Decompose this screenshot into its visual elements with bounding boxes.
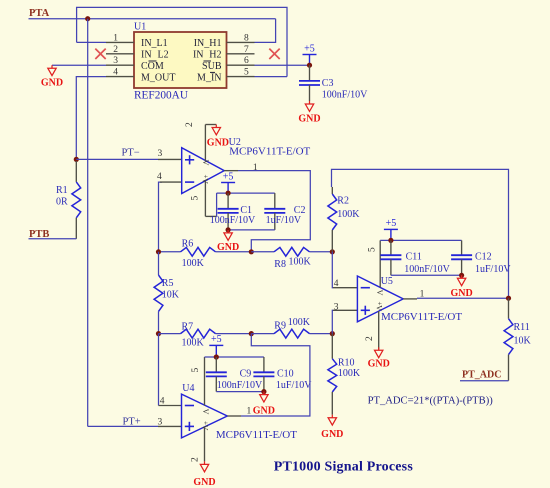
- wire PT- to U2 pin3: [76, 158, 158, 160]
- wire IN_L1 pin1: [77, 41, 106, 43]
- svg-text:PT+: PT+: [123, 416, 141, 427]
- svg-text:GND: GND: [368, 359, 390, 370]
- svg-text:REF200AU: REF200AU: [134, 90, 188, 102]
- svg-text:10K: 10K: [162, 290, 180, 301]
- U4 pin2 to ground: [204, 426, 206, 461]
- svg-text:+5: +5: [223, 171, 234, 182]
- svg-text:100nF/10V: 100nF/10V: [217, 380, 263, 391]
- svg-text:R2: R2: [337, 196, 349, 207]
- svg-text:GND: GND: [207, 137, 229, 148]
- wire C1 C2 bottom rail: [228, 229, 275, 231]
- svg-text:7: 7: [244, 45, 249, 55]
- resistor R7 100K: [181, 329, 216, 338]
- svg-text:+5: +5: [211, 334, 222, 345]
- junction R10 top: [330, 331, 335, 336]
- svg-text:M_OUT: M_OUT: [141, 72, 175, 83]
- svg-text:100K: 100K: [182, 337, 205, 348]
- wire U5 pin3 to R10 junction: [331, 310, 334, 333]
- wire PTA horizontal: [29, 18, 276, 20]
- resistor R8 100K: [251, 251, 274, 253]
- svg-text:8: 8: [244, 33, 249, 43]
- svg-text:PT−: PT−: [122, 148, 140, 159]
- svg-text:100K: 100K: [288, 317, 311, 328]
- svg-text:100K: 100K: [338, 368, 361, 379]
- junction U2 feedback: [249, 249, 254, 254]
- svg-text:100nF/10V: 100nF/10V: [322, 90, 368, 101]
- capacitor C1 100nF/10V: [227, 193, 229, 209]
- svg-text:3: 3: [158, 149, 163, 159]
- svg-text:U5: U5: [381, 276, 393, 287]
- wire U4 output feedback loop: [241, 334, 310, 416]
- svg-text:MCP6V11T-E/OT: MCP6V11T-E/OT: [381, 311, 462, 323]
- svg-text:4: 4: [113, 68, 118, 78]
- resistor R10 100K: [331, 334, 333, 359]
- power +5 at U2: [227, 183, 229, 194]
- svg-text:1: 1: [247, 407, 252, 417]
- wire R5 junction to U4 pin4: [158, 334, 160, 406]
- U4 pin3 stub: [158, 425, 182, 427]
- svg-text:R7: R7: [182, 322, 194, 333]
- svg-text:PT_ADC=21*((PTA)-(PTB)): PT_ADC=21*((PTA)-(PTB)): [368, 396, 494, 407]
- wire bottom middle rail left: [159, 333, 181, 335]
- U2 pin4 stub: [160, 181, 182, 183]
- svg-text:SUB: SUB: [202, 61, 222, 72]
- svg-text:1: 1: [113, 33, 118, 43]
- svg-text:3: 3: [158, 418, 163, 428]
- svg-text:5: 5: [244, 68, 249, 78]
- svg-text:PT1000 Signal Process: PT1000 Signal Process: [274, 460, 414, 475]
- wire C9 C10 bottom rail: [216, 391, 264, 393]
- no-connect X pin 7: [269, 49, 279, 59]
- junction PTA: [85, 16, 90, 21]
- wire U5 output: [417, 297, 509, 299]
- junction U4 feedback: [249, 331, 254, 336]
- junction +5 C1: [226, 191, 231, 196]
- U4 output pin1: [227, 415, 241, 417]
- svg-text:PT_ADC: PT_ADC: [462, 370, 501, 381]
- svg-text:100K: 100K: [289, 256, 312, 267]
- U5 pin5 to +5 rail: [379, 240, 381, 287]
- wire C11 C12 bottom rail: [391, 274, 462, 276]
- U2 pin3 stub: [158, 158, 182, 160]
- junction C3 node: [307, 63, 312, 68]
- wire pin8 to PTA rail: [255, 19, 276, 43]
- svg-text:100K: 100K: [337, 209, 360, 220]
- svg-text:IN_L1: IN_L1: [141, 38, 168, 49]
- U5 pin3 stub: [333, 309, 357, 311]
- capacitor C3: [309, 65, 311, 81]
- svg-text:2: 2: [113, 45, 118, 55]
- junction R2 bottom: [330, 249, 335, 254]
- wire M_OUT pin4 down to PT- node: [76, 77, 106, 160]
- junction R11 top: [506, 296, 511, 301]
- U2 pin5 to +5 rail: [204, 181, 206, 217]
- capacitor C10 1uF/10V: [263, 357, 265, 372]
- svg-text:100nF/10V: 100nF/10V: [404, 264, 450, 275]
- svg-text:R1: R1: [56, 185, 68, 196]
- svg-text:3: 3: [113, 56, 118, 66]
- svg-text:C11: C11: [406, 252, 422, 263]
- svg-text:5: 5: [191, 368, 201, 373]
- svg-text:1uF/10V: 1uF/10V: [475, 264, 511, 275]
- svg-text:3: 3: [334, 302, 339, 312]
- wire C1 C2 top rail: [217, 192, 275, 194]
- svg-text:5: 5: [191, 196, 201, 201]
- svg-text:1uF/10V: 1uF/10V: [276, 380, 312, 391]
- wire top middle rail left: [159, 251, 181, 253]
- svg-text:L2: L2: [158, 50, 169, 61]
- wire top loop M_IN to IN_L1: [77, 7, 287, 76]
- svg-text:H2: H2: [209, 50, 221, 61]
- svg-text:IN: IN: [193, 50, 204, 61]
- junction +5 C9: [214, 354, 219, 359]
- op-amp U4: [182, 394, 228, 438]
- svg-text:V: V: [201, 409, 210, 415]
- U1 left pin stubs 1-4: [106, 41, 134, 43]
- svg-text:IN_H1: IN_H1: [194, 38, 222, 49]
- U4 pin5 to +5 rail: [204, 357, 206, 406]
- svg-text:GND: GND: [193, 477, 215, 488]
- svg-text:GND: GND: [41, 78, 63, 89]
- junction +5 C11: [388, 238, 393, 243]
- svg-text:2: 2: [185, 122, 195, 127]
- wire PT_ADC: [460, 380, 509, 382]
- capacitor C12 1uF/10V: [461, 240, 463, 255]
- op-amp U5: [357, 276, 403, 322]
- resistor R6 100K: [181, 247, 216, 256]
- wire PT+ to U4 pin3: [88, 425, 158, 427]
- U4 pin4 stub: [159, 405, 182, 407]
- svg-text:IN: IN: [141, 50, 152, 61]
- svg-text:1uF/10V: 1uF/10V: [266, 215, 302, 226]
- ground below R10: [331, 415, 333, 418]
- wire U1 pin6 to C3 node: [255, 64, 310, 66]
- svg-text:C10: C10: [277, 369, 294, 380]
- svg-text:PTA: PTA: [29, 8, 50, 19]
- svg-text:GND: GND: [298, 114, 320, 125]
- wire R2 junction to U5 pin4: [331, 252, 334, 288]
- svg-text:+5: +5: [386, 218, 397, 229]
- svg-text:MCP6V11T-E/OT: MCP6V11T-E/OT: [229, 146, 310, 158]
- svg-text:5: 5: [367, 247, 377, 252]
- svg-text:+5: +5: [304, 43, 315, 54]
- svg-text:GND: GND: [450, 288, 472, 299]
- junction rail R5 bottom: [156, 331, 161, 336]
- ground below C3: [309, 101, 311, 104]
- svg-text:V: V: [375, 290, 384, 296]
- ground below C12: [461, 275, 463, 278]
- node PT- junction: [74, 157, 79, 162]
- ground symbol at U1 pin3: [52, 64, 106, 66]
- svg-text:R6: R6: [182, 238, 194, 249]
- svg-text:COM: COM: [141, 61, 164, 72]
- svg-text:R5: R5: [162, 278, 174, 289]
- wire C11 C12 top rail: [380, 239, 461, 241]
- U5 pin2 to ground: [378, 311, 380, 349]
- power +5 at U4: [215, 345, 217, 357]
- svg-text:6: 6: [244, 56, 249, 66]
- svg-text:U4: U4: [182, 383, 194, 394]
- U2 output pin1: [224, 170, 238, 172]
- power +5 above C3: [309, 55, 311, 66]
- svg-text:GND: GND: [321, 429, 343, 440]
- wire R2 top rail: [332, 169, 509, 298]
- capacitor C2 1uF/10V: [274, 193, 276, 209]
- svg-text:100K: 100K: [182, 258, 205, 269]
- capacitor C11 100nF/10V: [390, 240, 392, 255]
- resistor R11 10K: [508, 298, 510, 319]
- U2 pin2 to ground: [204, 125, 206, 162]
- wire U2 pin4 to feedback rail: [159, 182, 163, 252]
- svg-text:0R: 0R: [56, 196, 68, 207]
- svg-text:M_IN: M_IN: [197, 72, 221, 83]
- svg-text:MCP6V11T-E/OT: MCP6V11T-E/OT: [216, 429, 297, 441]
- op-amp U2: [182, 148, 225, 194]
- svg-text:10K: 10K: [514, 336, 532, 347]
- svg-text:4: 4: [157, 172, 162, 182]
- svg-text:2: 2: [365, 336, 375, 341]
- svg-text:C12: C12: [475, 252, 492, 263]
- svg-text:GND: GND: [253, 406, 275, 417]
- U5 output pin1: [403, 298, 417, 300]
- U5 pin4 stub: [333, 287, 357, 289]
- power +5 at U5: [390, 229, 392, 240]
- resistor R9 100K: [251, 333, 274, 335]
- svg-text:R11: R11: [514, 322, 530, 333]
- no-connect X pin 2: [95, 49, 105, 59]
- junction rail R5 top: [156, 249, 161, 254]
- resistor R5 10K: [154, 275, 163, 311]
- svg-text:4: 4: [160, 397, 165, 407]
- svg-text:2: 2: [190, 457, 200, 462]
- wire PTB: [29, 238, 77, 240]
- svg-text:C9: C9: [240, 369, 252, 380]
- svg-text:PTB: PTB: [29, 229, 49, 240]
- svg-text:1: 1: [253, 163, 258, 173]
- IC U1 REF200AU: [134, 32, 227, 88]
- junction gnd C10: [261, 389, 266, 394]
- svg-text:R8: R8: [274, 259, 286, 270]
- svg-text:4: 4: [334, 279, 339, 289]
- svg-text:R9: R9: [274, 321, 286, 332]
- ground below C1: [227, 230, 229, 233]
- U1 right pin stubs 8-5: [227, 41, 255, 43]
- wire U1 pin5 to top loop: [255, 76, 288, 78]
- junction gnd C1: [226, 227, 231, 232]
- svg-text:C3: C3: [322, 78, 334, 89]
- wire PTA down to PT+ (left long vertical): [87, 19, 89, 427]
- resistor R2 100K: [331, 187, 333, 194]
- resistor R1 0R: [75, 161, 77, 182]
- ground below C10: [263, 392, 265, 395]
- junction gnd C12: [459, 273, 464, 278]
- capacitor C9 100nF/10V: [215, 357, 217, 372]
- wire C9 C10 top rail: [205, 356, 264, 358]
- svg-text:U1: U1: [134, 22, 146, 33]
- svg-text:100nF/10V: 100nF/10V: [210, 215, 256, 226]
- wire U2 output feedback loop: [238, 171, 310, 252]
